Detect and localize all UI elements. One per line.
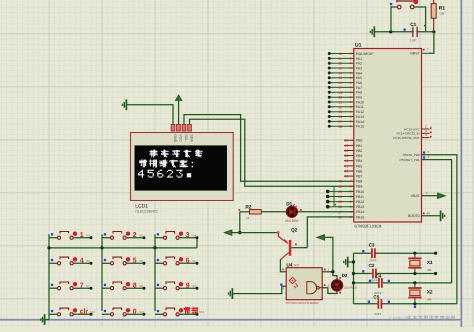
- svg-text:OSCOUT_PD1: OSCOUT_PD1: [399, 158, 420, 162]
- ground crystal rail: [344, 257, 348, 268]
- svg-text:S4: S4: [86, 259, 90, 263]
- sheet border right edge: [460, 0, 462, 327]
- wire links PB10-PB13: [333, 186, 335, 191]
- pin PC15-OSC32_OUT (4): [422, 137, 430, 139]
- svg-text:34: 34: [338, 115, 342, 119]
- U4 pin8 output wire to D2 bottom: [322, 288, 337, 294]
- svg-text:9: 9: [186, 282, 190, 289]
- svg-text:8M: 8M: [427, 268, 432, 272]
- svg-text:VBAT: VBAT: [411, 194, 421, 198]
- svg-text:C3: C3: [369, 242, 375, 247]
- svg-text:GND: GND: [173, 134, 177, 142]
- svg-text:R2: R2: [245, 205, 251, 211]
- svg-text:PB9: PB9: [356, 185, 363, 189]
- wire Q2 emitter down to U4: [280, 259, 286, 271]
- pin PB0 (18): [344, 139, 354, 141]
- svg-text:13: 13: [338, 67, 342, 71]
- svg-text:18: 18: [344, 139, 348, 143]
- svg-text:41: 41: [344, 164, 348, 168]
- pin PA4 (14): [329, 72, 354, 74]
- svg-text:U1: U1: [355, 42, 362, 48]
- svg-text:S12: S12: [199, 310, 205, 314]
- power terminal VCC (up arrow): [176, 95, 182, 100]
- svg-text:PB8: PB8: [356, 180, 363, 184]
- svg-text:PA10: PA10: [356, 100, 364, 104]
- capacitor C1: [413, 27, 417, 37]
- svg-text:12: 12: [338, 62, 342, 66]
- svg-text:PA13: PA13: [356, 115, 364, 119]
- svg-text:X1: X1: [427, 260, 433, 265]
- svg-text:S10: S10: [90, 310, 96, 314]
- svg-text:PA0-WKUP: PA0-WKUP: [356, 52, 374, 56]
- svg-text:OLED128642C: OLED128642C: [135, 209, 159, 213]
- svg-text:D2: D2: [342, 273, 348, 278]
- screen line3 password digits: [138, 170, 144, 178]
- pin VBAT (1): [422, 195, 438, 197]
- wire button right leg down: [414, 7, 426, 32]
- svg-text:43: 43: [344, 175, 348, 179]
- U4 internal NAND gate: [307, 282, 317, 294]
- svg-text:46: 46: [338, 185, 342, 189]
- resistor R2: [240, 211, 250, 213]
- wire to Q2 base: [232, 232, 278, 234]
- wire NRST: [428, 32, 434, 54]
- svg-text:10k: 10k: [439, 12, 445, 16]
- svg-text:PB11: PB11: [356, 195, 364, 199]
- svg-text:BOOT0: BOOT0: [408, 214, 420, 218]
- svg-text:PB0: PB0: [356, 139, 363, 143]
- pin PB2 (20): [344, 150, 354, 152]
- keypad row1 net wire: [49, 247, 197, 249]
- push button S11 (0): [104, 310, 106, 312]
- svg-text:PA5: PA5: [356, 76, 362, 80]
- pin PC13_RTC (2): [422, 128, 430, 130]
- op-amp U1 STM32F103C8 body: [354, 49, 422, 223]
- svg-text:1: 1: [80, 232, 84, 239]
- svg-text:40: 40: [344, 159, 348, 163]
- capacitor C3: [370, 252, 372, 254]
- svg-text:42: 42: [344, 169, 348, 173]
- svg-text:PB14: PB14: [356, 210, 364, 214]
- svg-text:32: 32: [338, 105, 342, 109]
- svg-text:S11: S11: [139, 310, 144, 314]
- svg-text:1k: 1k: [246, 216, 250, 220]
- svg-text:S5: S5: [139, 259, 143, 263]
- pin PA10 (31): [329, 101, 354, 103]
- svg-text:SDA: SDA: [190, 134, 194, 142]
- push button S6 (6): [157, 259, 159, 261]
- power terminal arrow (left) keypad row1: [225, 230, 232, 235]
- wire keypad ground stub: [45, 319, 49, 321]
- svg-text:0: 0: [133, 309, 137, 316]
- pin PA7 (17): [329, 86, 354, 88]
- pin PA2 (12): [329, 62, 354, 64]
- optocoupler U4 body: [286, 268, 322, 300]
- svg-text:OPTOCOUPLER-NAND: OPTOCOUPLER-NAND: [286, 301, 320, 305]
- svg-text:33: 33: [338, 110, 342, 114]
- wire X1 bottom rail: [354, 273, 436, 275]
- wire X1 top rail: [354, 252, 436, 254]
- ground keypad: [41, 314, 45, 325]
- svg-text:PA1: PA1: [356, 57, 362, 61]
- svg-text:C4: C4: [376, 273, 382, 278]
- svg-text:LED-RED: LED-RED: [285, 219, 299, 223]
- svg-text:44: 44: [426, 212, 430, 216]
- sheet border bottom edge: [0, 319, 461, 321]
- watermark: [389, 315, 455, 322]
- U4 pin2 wire to D2 top: [322, 271, 333, 273]
- svg-text:PA15: PA15: [356, 125, 364, 129]
- svg-text:20: 20: [344, 149, 348, 153]
- LED D1: [286, 206, 297, 217]
- svg-text:11: 11: [338, 57, 342, 61]
- push button S8 (8): [104, 284, 106, 286]
- svg-text:1UF: 1UF: [410, 38, 416, 42]
- svg-text:U4: U4: [286, 262, 292, 267]
- svg-text:LCD1: LCD1: [135, 203, 148, 209]
- push button S10 (clr): [51, 310, 53, 312]
- svg-text:PB3: PB3: [356, 154, 363, 158]
- push button S1 (1): [51, 233, 53, 235]
- svg-text:S6: S6: [192, 259, 196, 263]
- resistor R1: [433, 18, 435, 31]
- svg-text:PB7: PB7: [356, 175, 363, 179]
- ground U4: [228, 288, 232, 299]
- svg-text:PA14: PA14: [356, 120, 364, 124]
- screen line2 请输入密码:: [139, 159, 147, 167]
- svg-text:PA6: PA6: [356, 81, 362, 85]
- svg-text:PA9: PA9: [356, 96, 362, 100]
- svg-text:PB4: PB4: [356, 159, 363, 163]
- svg-text:8: 8: [133, 282, 137, 289]
- svg-text:S1: S1: [86, 234, 90, 238]
- svg-text:PB2: PB2: [356, 149, 363, 153]
- capacitor C2: [371, 273, 373, 275]
- crystal X2: [414, 283, 416, 288]
- svg-text:4: 4: [80, 258, 84, 265]
- svg-text:PA12: PA12: [356, 110, 364, 114]
- svg-text:29: 29: [338, 91, 342, 95]
- wire LCD GND: [127, 105, 173, 125]
- svg-text:PB5: PB5: [356, 164, 363, 168]
- pin PB1 (19): [344, 144, 354, 146]
- push button reset (top, clipped): [397, 0, 415, 9]
- svg-text:Q2: Q2: [291, 228, 298, 234]
- wire button left: [391, 6, 397, 8]
- svg-text:S2: S2: [139, 234, 143, 238]
- svg-text:S9: S9: [192, 284, 196, 288]
- push button S7 (7): [51, 284, 53, 286]
- svg-text:PB1: PB1: [356, 144, 363, 148]
- svg-text:PC15-OSC32_OUT: PC15-OSC32_OUT: [393, 136, 420, 140]
- svg-text:C5: C5: [373, 295, 379, 300]
- svg-text:VCC: VCC: [179, 134, 183, 142]
- svg-text:PA3: PA3: [356, 67, 362, 71]
- pin PA11 (32): [329, 106, 354, 108]
- wire X2 top rail: [354, 282, 452, 284]
- svg-text:3: 3: [186, 232, 190, 239]
- LED D2: [331, 280, 343, 292]
- svg-text:5: 5: [133, 258, 137, 265]
- svg-text:PA4: PA4: [356, 71, 362, 75]
- wire D1 to PB14: [298, 211, 354, 213]
- pin PA12 (33): [329, 111, 354, 113]
- svg-text:22PF: 22PF: [374, 312, 381, 316]
- svg-text:PA11: PA11: [356, 105, 364, 109]
- svg-text:CSDN @: CSDN @: [389, 316, 409, 322]
- pin PB6 (42): [344, 170, 354, 172]
- pin PB4 (40): [344, 160, 354, 162]
- svg-text:16: 16: [338, 81, 342, 85]
- pin PC14-OSC32_IN (3): [422, 132, 430, 134]
- wire X2 bottom rail: [354, 303, 457, 305]
- pin PA0-WKUP (10): [329, 53, 354, 55]
- pin PA13 (34): [329, 116, 354, 118]
- LCD1 OLED display body: [131, 133, 234, 201]
- svg-text:NOT: NOT: [294, 264, 300, 267]
- svg-text:SCL: SCL: [184, 134, 188, 141]
- push button S9 (9): [157, 284, 159, 286]
- junction D2 top net: [331, 270, 334, 273]
- ground LCD GND: [122, 99, 126, 110]
- pin PB5 (41): [344, 165, 354, 167]
- push button S2 (2): [104, 233, 106, 235]
- svg-text:30: 30: [338, 96, 342, 100]
- wire arrow net down to D2: [325, 237, 337, 279]
- screen line1 智能密码锁: [150, 150, 158, 158]
- keypad column bus 3: [154, 234, 156, 311]
- pin PA9 (30): [329, 96, 354, 98]
- svg-text:30PF: 30PF: [370, 279, 377, 283]
- svg-text:31: 31: [338, 101, 342, 105]
- svg-text:C2: C2: [369, 263, 375, 268]
- svg-text:10: 10: [338, 52, 342, 56]
- wire SCL from LCD to U1 PB8: [184, 115, 354, 182]
- svg-text:4: 4: [425, 133, 427, 137]
- svg-text:17: 17: [338, 86, 342, 90]
- wire R2 base net down: [239, 212, 241, 233]
- svg-text:7: 7: [427, 48, 429, 52]
- svg-text:15: 15: [338, 76, 342, 80]
- junction reset-button left leg: [389, 30, 392, 33]
- pin PB3 (39): [344, 155, 354, 157]
- push button S4 (4): [51, 259, 53, 261]
- svg-text:STM32F103C8: STM32F103C8: [354, 224, 382, 229]
- capacitor C4: [377, 282, 379, 284]
- ground near C1: [370, 26, 374, 37]
- svg-text:PB10: PB10: [356, 190, 364, 194]
- junction base net: [238, 231, 241, 234]
- pin PA3 (13): [329, 67, 354, 69]
- svg-text:S8: S8: [139, 284, 143, 288]
- pin PA5 (15): [329, 77, 354, 79]
- svg-text:6: 6: [186, 258, 190, 265]
- svg-text:14: 14: [338, 71, 342, 75]
- wire Q2 collector to PB15: [292, 247, 308, 249]
- crystal X1: [414, 253, 416, 258]
- svg-text:30PF: 30PF: [369, 259, 376, 263]
- svg-text:8M: 8M: [427, 298, 432, 302]
- pin PA14 (37): [329, 120, 354, 122]
- wire button left leg down: [390, 6, 392, 32]
- power terminal arrow near U4: [317, 235, 324, 240]
- svg-text:clr: clr: [80, 309, 89, 316]
- svg-text:PB13: PB13: [356, 205, 364, 209]
- svg-text:S7: S7: [86, 284, 90, 288]
- svg-text:PB6: PB6: [356, 169, 363, 173]
- svg-text:R1: R1: [439, 5, 446, 11]
- keypad column bus 2: [101, 234, 103, 311]
- push button S5 (5): [104, 259, 106, 261]
- pin OSCIN_PD0 (5): [422, 155, 457, 304]
- svg-text:PA7: PA7: [356, 86, 362, 90]
- keypad column bus 1: [48, 234, 50, 319]
- svg-text:NRST: NRST: [410, 52, 420, 56]
- svg-text:7: 7: [80, 282, 84, 289]
- svg-text:PB12: PB12: [356, 200, 364, 204]
- wire left rail crystals: [353, 253, 355, 304]
- pin BOOT0 (44): [422, 215, 441, 217]
- svg-text:LED-RED: LED-RED: [344, 286, 358, 290]
- wire LCD VCC: [178, 101, 180, 125]
- svg-text:OSCIN_PD0: OSCIN_PD0: [403, 153, 420, 157]
- svg-text:C1: C1: [410, 22, 416, 28]
- svg-text:PA8: PA8: [356, 91, 362, 95]
- pin OSCOUT_PD1 (6): [422, 160, 452, 283]
- svg-text:1: 1: [426, 191, 428, 195]
- svg-text:2: 2: [133, 232, 137, 239]
- push button S3 (3): [157, 233, 159, 235]
- pin NRST (7): [422, 52, 429, 54]
- pin PA1 (11): [329, 57, 354, 59]
- capacitor C5: [377, 303, 379, 305]
- LCD screen: [135, 145, 228, 190]
- push button S12 (确认): [157, 310, 159, 312]
- junction R1 / NRST: [432, 30, 435, 33]
- pin PA15 (38): [329, 125, 354, 127]
- pin PA8 (29): [329, 91, 354, 93]
- pin PA6 (16): [329, 82, 354, 84]
- wire C1 net to NRST junction: [375, 31, 434, 33]
- LCD pin headers: [171, 124, 175, 131]
- svg-text:38: 38: [338, 125, 342, 129]
- svg-text:S3: S3: [192, 234, 196, 238]
- svg-text:PA2: PA2: [356, 62, 362, 66]
- U4 internal LED: [289, 277, 296, 284]
- svg-text:X2: X2: [427, 290, 433, 295]
- svg-text:19: 19: [344, 144, 348, 148]
- wire SDA from LCD to U1 PB9: [190, 119, 354, 186]
- svg-text:45: 45: [338, 180, 342, 184]
- svg-text:PB15: PB15: [356, 215, 364, 219]
- svg-text:39: 39: [344, 154, 348, 158]
- svg-text:37: 37: [338, 120, 342, 124]
- svg-text:D1: D1: [286, 201, 292, 206]
- ground BOOT0: [441, 210, 445, 221]
- pin PB7 (43): [344, 175, 354, 177]
